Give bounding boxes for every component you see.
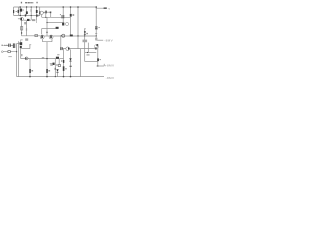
svg-text:-8MV: -8MV — [106, 76, 115, 80]
svg-text:-8MV: -8MV — [104, 38, 113, 42]
svg-text:+8MV: +8MV — [105, 63, 115, 67]
